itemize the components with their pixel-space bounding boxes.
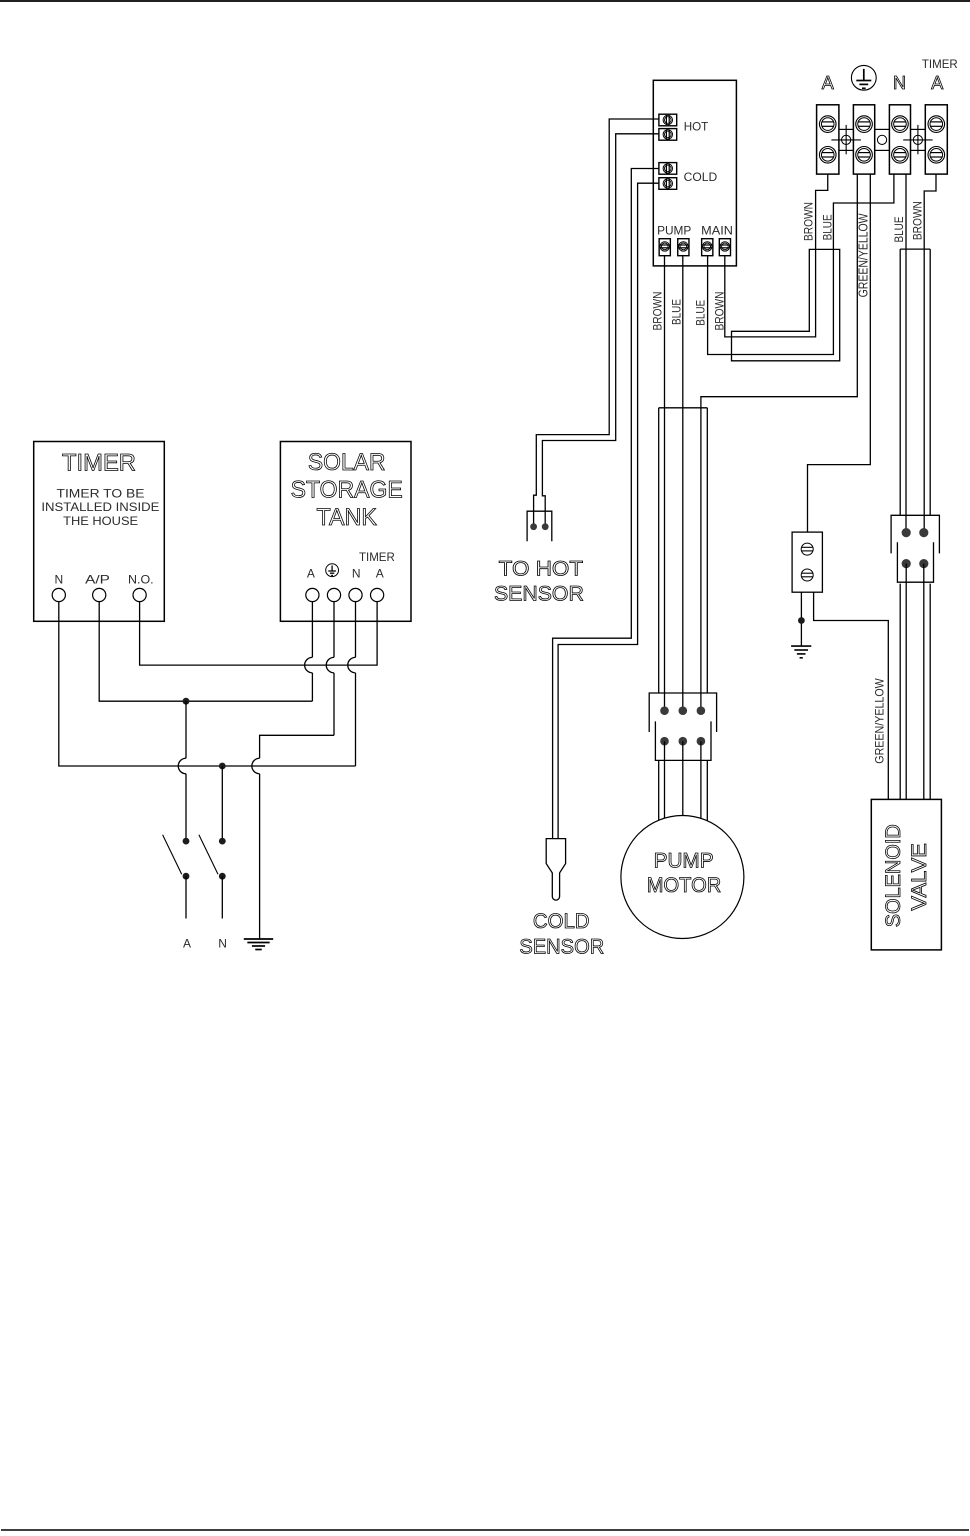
svg-text:BLUE: BLUE: [670, 299, 684, 325]
strip mount circle 2-3: [877, 135, 886, 144]
svg-text:BLUE: BLUE: [820, 214, 834, 240]
solar terminal A2 (timer): [371, 588, 384, 601]
svg-text:STORAGE: STORAGE: [291, 477, 403, 504]
pump cable sheath: [659, 407, 708, 409]
svg-text:GREEN/YELLOW: GREEN/YELLOW: [855, 213, 870, 297]
svg-text:INSTALLED INSIDE: INSTALLED INSIDE: [41, 500, 159, 514]
wire main blue to strip N: [708, 174, 894, 354]
svg-text:PUMP: PUMP: [657, 224, 691, 238]
svg-text:BROWN: BROWN: [911, 201, 925, 240]
solar earth label symbol: [326, 564, 339, 577]
wire earth strip to earth block: [808, 174, 871, 532]
solar storage tank box: [280, 442, 411, 622]
terminal MAIN 2: [719, 239, 730, 256]
svg-text:A: A: [307, 567, 315, 581]
svg-text:BLUE: BLUE: [693, 300, 707, 326]
svg-text:BROWN: BROWN: [802, 202, 816, 241]
hot sensor connector: [527, 511, 552, 541]
wire cold 2 to sensor: [558, 183, 659, 838]
wire timer N.O. to solar timer A: [140, 602, 378, 666]
svg-text:TANK: TANK: [317, 504, 377, 531]
terminal HOT 2: [659, 129, 677, 141]
wire earth drop from solar tank: [260, 735, 334, 758]
wire timer A/P to solar A: [99, 602, 312, 702]
wire main brown to strip A: [725, 174, 828, 337]
svg-text:A: A: [376, 567, 384, 581]
svg-text:TIMER: TIMER: [922, 57, 958, 71]
pump motor: [621, 816, 744, 939]
svg-text:VALVE: VALVE: [908, 843, 931, 911]
earth terminal block: [792, 532, 822, 592]
hop of earth wire over N run: [252, 758, 260, 774]
terminal MAIN 1: [702, 239, 713, 256]
svg-text:SENSOR: SENSOR: [519, 936, 604, 959]
svg-text:GREEN/YELLOW: GREEN/YELLOW: [873, 678, 887, 764]
wire switch N drop: [221, 766, 223, 841]
wires solenoid socket to valve: [905, 564, 907, 800]
svg-text:A: A: [931, 73, 943, 93]
cold sensor probe: [546, 839, 565, 901]
solar terminal A1: [306, 588, 319, 601]
hop of solar N wire over N.O. run: [355, 602, 357, 658]
svg-text:N.O.: N.O.: [128, 572, 154, 586]
node junction N line: [219, 763, 226, 770]
terminal block 3 (N): [889, 105, 910, 174]
svg-text:SENSOR: SENSOR: [494, 582, 584, 605]
wire earth block to ground: [800, 592, 802, 646]
svg-text:BLUE: BLUE: [892, 217, 906, 243]
terminal COLD 2: [659, 178, 677, 190]
solenoid cable sheath upper: [900, 248, 930, 250]
svg-text:N: N: [893, 73, 906, 93]
terminal block 1 (A): [817, 105, 839, 174]
header rule: [0, 0, 970, 2]
pump connector socket: [655, 721, 711, 760]
wire green/yellow strip to pump: [701, 174, 857, 711]
node earth junction: [798, 617, 805, 624]
svg-text:TIMER: TIMER: [359, 550, 395, 564]
svg-text:A: A: [183, 937, 191, 951]
controller box: [653, 80, 736, 266]
svg-text:SOLAR: SOLAR: [308, 449, 386, 476]
timer terminal A/P: [93, 588, 106, 601]
wire solenoid brown: [924, 174, 936, 532]
wires pump socket to motor: [664, 741, 666, 818]
svg-text:N: N: [352, 567, 361, 581]
switch S2 (N): [219, 838, 226, 845]
switch S1 (A): [183, 838, 190, 845]
svg-text:N: N: [54, 572, 63, 586]
svg-text:COLD: COLD: [533, 910, 590, 933]
solenoid connector socket: [897, 542, 933, 582]
node junction A/P line: [183, 698, 190, 705]
hop of solar A wire over N.O. run: [311, 602, 313, 658]
svg-text:COLD: COLD: [684, 170, 718, 184]
main cable sheath outline: [732, 249, 840, 360]
hop of solar earth wire over N.O. run: [333, 602, 335, 658]
timer terminal N.O.: [133, 588, 146, 601]
pump connector plug: [649, 693, 716, 732]
timer box: [34, 442, 165, 622]
strip bridge 3-4: [911, 128, 926, 130]
svg-text:HOT: HOT: [684, 119, 709, 133]
strip bridge 2-3: [875, 128, 890, 130]
wire switch A drop with hop: [185, 701, 187, 758]
svg-text:N: N: [218, 937, 227, 951]
svg-text:TO HOT: TO HOT: [499, 558, 584, 581]
ground left: [244, 938, 273, 940]
strip mount crosshair 3-4: [913, 135, 922, 144]
svg-text:PUMP: PUMP: [654, 849, 714, 872]
wire cold 1 to sensor: [553, 169, 660, 839]
terminal PUMP 1: [659, 239, 670, 256]
terminal block 4 (timer A): [925, 105, 947, 174]
svg-text:MOTOR: MOTOR: [647, 874, 722, 897]
svg-text:BROWN: BROWN: [650, 292, 664, 331]
wire pump brown: [664, 256, 666, 711]
svg-text:BROWN: BROWN: [712, 292, 726, 331]
solar terminal earth: [327, 588, 340, 601]
strip mount crosshair 1-2: [842, 135, 851, 144]
strip bridge 1-2: [839, 128, 854, 130]
terminal block 2 (earth): [853, 105, 874, 174]
svg-text:A/P: A/P: [85, 572, 110, 586]
wire hot 2 to sensor plug: [542, 134, 659, 527]
svg-text:TIMER TO BE: TIMER TO BE: [57, 487, 145, 501]
svg-text:MAIN: MAIN: [701, 224, 733, 238]
terminal HOT 1: [659, 114, 677, 126]
svg-text:TIMER: TIMER: [62, 450, 136, 477]
timer terminal N: [52, 588, 65, 601]
wire earth block to solenoid valve (green/yellow): [814, 592, 889, 799]
terminal COLD 1: [659, 163, 677, 175]
wire solenoid blue: [905, 174, 907, 532]
wire pump blue: [682, 256, 684, 711]
footer rule: [1, 1529, 969, 1531]
wire timer N to solar N: [59, 602, 356, 766]
svg-text:SOLENOID: SOLENOID: [882, 824, 905, 927]
ground right: [791, 645, 811, 647]
terminal PUMP 2: [678, 239, 689, 256]
svg-text:A: A: [822, 73, 834, 93]
solenoid valve box: [871, 799, 941, 950]
wire hot 1 to sensor plug: [534, 119, 660, 527]
solar terminal N: [349, 588, 362, 601]
strip earth symbol: [851, 65, 876, 90]
svg-text:THE HOUSE: THE HOUSE: [63, 514, 138, 528]
solenoid connector plug: [891, 515, 939, 553]
